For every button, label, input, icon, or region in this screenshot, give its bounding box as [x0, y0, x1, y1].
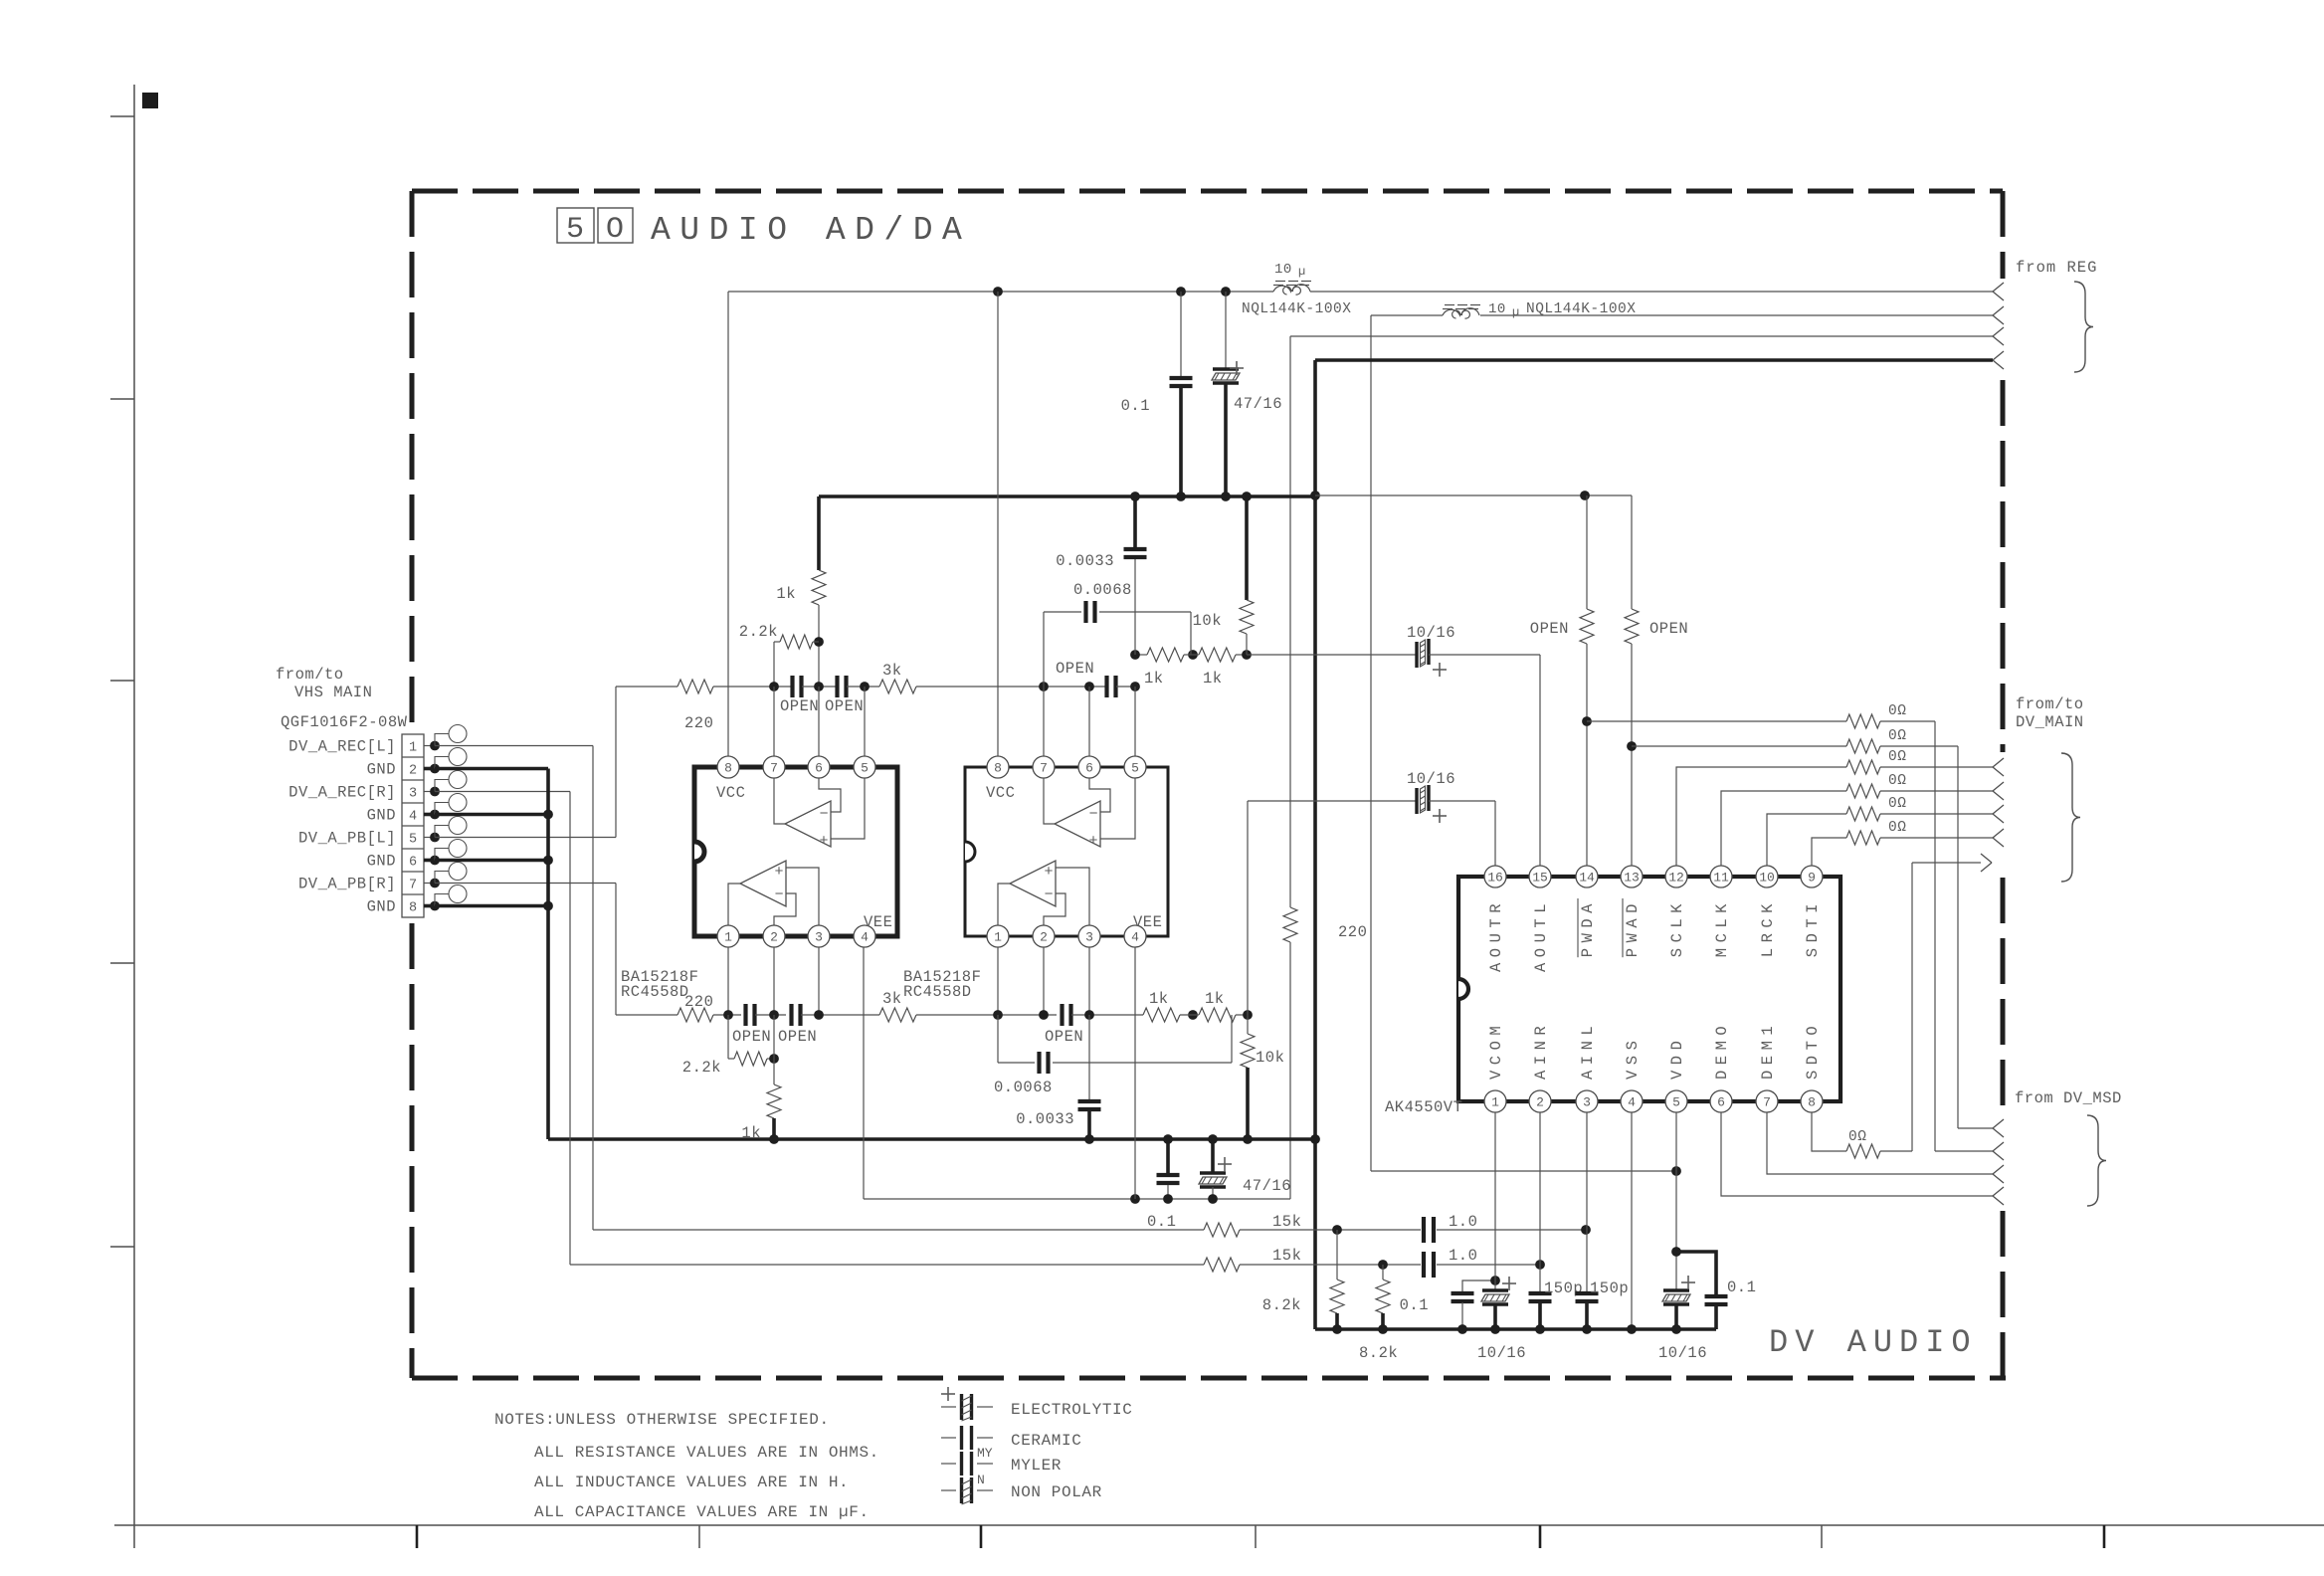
wire AGND from REG y362 (thick) [1315, 358, 1993, 362]
dashed board outline - right edge segment 2 [2001, 380, 2006, 752]
svg-text:DV_A_PB[R]: DV_A_PB[R] [298, 876, 396, 893]
resistor 1k row1020 first [1143, 1008, 1180, 1022]
capacitor OPEN row y1020 second [789, 1004, 793, 1026]
resistor 1k vertical (U1 bias) [812, 570, 826, 605]
svg-text:7: 7 [770, 761, 778, 776]
op-amp U1 pin 7 [763, 756, 785, 778]
wire pulldown net y498 [1315, 494, 1632, 496]
svg-text:10k: 10k [1256, 1049, 1284, 1067]
CN1 pin 7 stub and test point [424, 883, 435, 885]
svg-text:3k: 3k [882, 662, 902, 680]
op-amp U2 upper amp triangle [1055, 801, 1100, 847]
svg-text:DEM1: DEM1 [1759, 1021, 1777, 1080]
wire PWDA riser pin14 with OPEN resistor [1586, 495, 1588, 609]
dashed board outline - left edge lower [410, 923, 415, 1378]
capacitor OPEN row y690 first [790, 676, 794, 697]
wire CN1 pin3 DV_A_REC[R] [435, 791, 570, 793]
svg-text:15k: 15k [1272, 1213, 1301, 1231]
junction U2 pin7 node row y690 [1039, 682, 1049, 691]
svg-text:10/16: 10/16 [1407, 624, 1455, 642]
wire VDD branch y1177 [1371, 1170, 1676, 1172]
op-amp U2 pin 3 [1078, 925, 1100, 947]
dashed board outline - right edge segment 4 [2001, 1211, 2006, 1378]
svg-text:AINR: AINR [1532, 1021, 1550, 1080]
junction U2 pin3 node row y1020 [1084, 1010, 1094, 1020]
svg-text:5: 5 [1672, 1095, 1680, 1110]
connector CN1 body [402, 734, 424, 917]
bottom ruler tick x419 [416, 1525, 419, 1548]
wire VDD riser x1378 [1370, 315, 1372, 1171]
bottom ruler tick x703 [698, 1525, 700, 1548]
svg-text:DV_A_PB[L]: DV_A_PB[L] [298, 830, 396, 848]
svg-text:+: + [774, 864, 784, 881]
resistor 3k row y1020 [879, 1008, 916, 1022]
svg-text:10/16: 10/16 [1477, 1344, 1526, 1362]
svg-text:µ: µ [1512, 305, 1519, 319]
svg-text:0.1: 0.1 [1727, 1279, 1756, 1296]
svg-text:1: 1 [409, 741, 417, 756]
junction PWDA row y725 [1582, 716, 1592, 726]
IC U3 pin 14 PWDA [1576, 866, 1598, 887]
svg-text:16: 16 [1487, 871, 1503, 886]
capacitor 0.1 top - lead [1180, 292, 1182, 376]
resistor 1k row658 second [1199, 648, 1236, 662]
capacitor OPEN row y690 third [1104, 676, 1108, 697]
svg-text:VEE: VEE [864, 913, 892, 931]
IC U3 pin 13 PWAD [1621, 866, 1643, 887]
svg-text:5: 5 [861, 761, 869, 776]
IC U3 pin 11 MCLK [1710, 866, 1732, 887]
svg-text:0.0068: 0.0068 [1073, 581, 1132, 599]
dashed board outline - right edge segment 1 [2001, 191, 2006, 279]
svg-text:6: 6 [1717, 1095, 1725, 1110]
svg-text:MYLER: MYLER [1011, 1457, 1062, 1475]
inductor L1 10u NQL144K-100X [1273, 285, 1310, 295]
svg-text:0Ω: 0Ω [1888, 728, 1906, 744]
wire VEE riser x1297 lower [1289, 942, 1291, 1199]
svg-text:2: 2 [409, 764, 417, 779]
capacitor 150p AINL [1586, 1112, 1588, 1292]
op-amp U2 pin 2 [1033, 925, 1055, 947]
wire row658 to 10/16 coupling cap [1247, 654, 1418, 656]
svg-text:220: 220 [684, 714, 713, 732]
wire CN1 pin5 DV_A_PB[L] [435, 837, 616, 839]
svg-text:5: 5 [566, 213, 584, 247]
wire row y805 to coupling cap [1248, 800, 1418, 802]
IC U3 pin 3 AINL [1576, 1090, 1598, 1112]
wire row y690 to U2 region [916, 686, 1106, 688]
wire U2 pin5 riser [1134, 687, 1136, 756]
svg-text:DV_A_REC[R]: DV_A_REC[R] [289, 784, 396, 802]
capacitor OPEN row y1020 third [1060, 1004, 1064, 1026]
title block digit 5 box [557, 208, 594, 243]
svg-text:OPEN: OPEN [732, 1028, 771, 1046]
junction 0.1 mid on VEE rail [1163, 1194, 1173, 1204]
junction 10k lower on bus [1243, 1134, 1253, 1144]
svg-text:VCC: VCC [716, 784, 745, 802]
svg-text:7: 7 [1763, 1095, 1771, 1110]
op-amp U2 pin 7 [1033, 756, 1055, 778]
svg-text:1k: 1k [1149, 990, 1169, 1008]
wire riser x1945 row725 to DV_MSD arrow2 [1934, 721, 1936, 1151]
dashed board outline - top edge [412, 189, 2003, 194]
wire U1 pin3 riser [818, 947, 820, 1015]
resistor 8.2k first [1336, 1230, 1338, 1280]
svg-text:ELECTROLYTIC: ELECTROLYTIC [1011, 1401, 1132, 1419]
junction U1 pin5 node row y690 [860, 682, 870, 691]
resistor 220 row y1020 [678, 1008, 713, 1022]
CN1 pin 3 stub and test point [424, 791, 435, 793]
junction AGND riser with y498 line [1310, 491, 1320, 500]
svg-text:3: 3 [409, 787, 417, 802]
junction 8.2k row1236 [1332, 1225, 1342, 1235]
capacitor 0.0033 upper [1124, 547, 1147, 551]
svg-text:1.0: 1.0 [1449, 1247, 1477, 1265]
wire U1 pin2 riser [773, 947, 775, 1015]
svg-text:AOUTL: AOUTL [1532, 898, 1550, 972]
svg-text:10: 10 [1488, 301, 1506, 317]
brace REG connector group [2074, 282, 2093, 372]
svg-text:OPEN: OPEN [1530, 620, 1569, 638]
svg-text:3: 3 [1583, 1095, 1591, 1110]
wire VSS riser to ground bus [1631, 1112, 1633, 1329]
op-amp U1 pin 5 [854, 756, 875, 778]
connector arrow from DV_MSD line 4 [1993, 1187, 2004, 1196]
op-amp U1 notch [694, 842, 704, 862]
op-amp U2 pin 5 [1124, 756, 1146, 778]
svg-text:8.2k: 8.2k [1359, 1344, 1398, 1362]
svg-text:2: 2 [1536, 1095, 1544, 1110]
op-amp U1 pin 2 [763, 925, 785, 947]
svg-text:ALL INDUCTANCE VALUES ARE IN H: ALL INDUCTANCE VALUES ARE IN H. [534, 1474, 849, 1491]
junction between 1k resistors row658 [1188, 650, 1198, 660]
svg-text:1.0: 1.0 [1449, 1213, 1477, 1231]
title block digit 0 box [598, 208, 633, 243]
resistor 3k row y690 [879, 680, 916, 693]
svg-text:0.1: 0.1 [1147, 1213, 1176, 1231]
wire VCC riser to op-amp U1 pin8 [727, 292, 729, 756]
bottom ruler tick x1262 [1255, 1525, 1257, 1548]
junction PWAD row y750 [1627, 741, 1637, 751]
wire riser PB[R] x619 down [615, 884, 617, 1016]
junction 2.2k / 1k lower [769, 1054, 779, 1064]
svg-text:15k: 15k [1272, 1247, 1301, 1265]
svg-text:AUDIO AD/DA: AUDIO AD/DA [651, 212, 971, 249]
connector arrow from DV_MSD line 3 [1993, 1165, 2004, 1174]
junction U2 pin2 node row y1020 [1039, 1010, 1049, 1020]
resistor 1k row1020 second [1199, 1008, 1236, 1022]
svg-text:4: 4 [861, 930, 869, 945]
svg-text:DEMO: DEMO [1713, 1021, 1731, 1080]
wire CN1 pin7 DV_A_PB[R] [435, 883, 616, 885]
IC U3 pin 5 VDD [1665, 1090, 1687, 1112]
svg-text:0.0068: 0.0068 [994, 1079, 1053, 1096]
IC U3 notch [1458, 979, 1468, 999]
svg-text:10: 10 [1759, 871, 1775, 886]
svg-text:0Ω: 0Ω [1888, 703, 1906, 719]
svg-text:1k: 1k [1144, 670, 1164, 688]
node 0.1 cap on VCC net [1176, 287, 1186, 296]
wire U1 pin7 riser [773, 687, 775, 756]
svg-text:OPEN: OPEN [825, 697, 864, 715]
svg-text:0.1: 0.1 [1121, 397, 1150, 415]
svg-text:3k: 3k [882, 990, 902, 1008]
junction U1 pin1 node row y1020 [723, 1010, 733, 1020]
svg-text:O: O [606, 213, 624, 247]
dashed board outline - right edge segment 3 [2001, 878, 2006, 1112]
wire main row y1020 [616, 1014, 678, 1016]
wire VDD riser lower [1675, 1112, 1677, 1290]
svg-text:−: − [1088, 806, 1098, 823]
wire U1 pin1 riser [727, 947, 729, 1015]
wire SDTO pin8 to 0ohm and DV_MAIN out [1812, 1112, 1846, 1151]
inductor L2 10u NQL144K-100X [1443, 308, 1479, 318]
svg-text:from/to: from/to [276, 666, 344, 684]
wire riser x1968 row750 to DV_MSD arrow1 [1957, 746, 1959, 1128]
svg-text:12: 12 [1668, 871, 1684, 886]
svg-text:SDTO: SDTO [1804, 1021, 1822, 1080]
resistor 0ohm MCLK [1846, 784, 1880, 798]
CN1 pin 8 stub and test point [424, 904, 435, 908]
op-amp U1 pin 1 [717, 925, 739, 947]
svg-text:8: 8 [994, 761, 1002, 776]
wire LRCK pin10 to DV_MAIN [1767, 814, 1846, 866]
svg-text:MCLK: MCLK [1713, 898, 1731, 957]
svg-text:11: 11 [1713, 871, 1729, 886]
svg-text:µ: µ [1298, 265, 1305, 279]
margin tick y1253 [110, 1246, 134, 1248]
capacitor OPEN row y1020 first [743, 1004, 747, 1026]
node 47/16 cap on VCC net [1221, 287, 1231, 296]
wire MCLK pin11 to DV_MAIN [1721, 791, 1846, 866]
svg-text:DV_A_REC[L]: DV_A_REC[L] [289, 738, 396, 756]
junction 47/16 mid on VEE rail [1208, 1194, 1218, 1204]
junction 10k node row658 [1242, 650, 1252, 660]
wire DEM1 pin7 to DV_MSD arrow3 [1767, 1112, 1993, 1174]
svg-text:OPEN: OPEN [1649, 620, 1688, 638]
svg-text:10k: 10k [1193, 612, 1222, 630]
resistor 8.2k second [1382, 1265, 1384, 1280]
wire 0.0068 feedback loop upper [1043, 612, 1045, 687]
svg-text:NQL144K-100X: NQL144K-100X [1526, 301, 1636, 317]
svg-text:1: 1 [724, 930, 732, 945]
wire SDTI pin9 to DV_MAIN [1812, 838, 1846, 866]
bus VCC/2 y499 (thick) [819, 494, 1315, 498]
svg-text:N: N [977, 1473, 985, 1487]
svg-text:1: 1 [1491, 1095, 1499, 1110]
svg-text:150p: 150p [1590, 1280, 1629, 1297]
svg-text:SDTI: SDTI [1804, 898, 1822, 957]
svg-text:LRCK: LRCK [1759, 898, 1777, 957]
CN1 pin 6 stub and test point [424, 859, 435, 863]
op-amp U1 upper amp wires [774, 778, 785, 824]
svg-text:10/16: 10/16 [1658, 1344, 1707, 1362]
connector arrow DV_MAIN SCLK [1993, 758, 2004, 767]
op-amp U2 pin 6 [1078, 756, 1100, 778]
resistor 2.2k horizontal [774, 641, 780, 643]
junction U2 pin5 node row y690 [1130, 682, 1140, 691]
IC U3 pin 8 SDTO [1801, 1090, 1823, 1112]
connector arrow DV_MAIN MCLK [1993, 782, 2004, 791]
wire row y1020 to U2 [916, 1014, 1057, 1016]
junction row658 left [1130, 650, 1140, 660]
capacitor 0.0033 lower - lead [1088, 1015, 1090, 1101]
svg-text:CERAMIC: CERAMIC [1011, 1432, 1081, 1450]
capacitor 150p AINR [1539, 1112, 1541, 1292]
capacitor 0.0068 upper [1083, 601, 1087, 623]
junction U1 pin6 node row y690 [814, 682, 824, 691]
wire row y725 to 0ohm [1587, 720, 1846, 722]
connector arrow from REG line 2 [1993, 306, 2004, 315]
resistor 2.2k lower [728, 1058, 734, 1060]
capacitor 47/16 mid electrolytic [1211, 1139, 1215, 1173]
wire ADC input row y1236 [593, 1229, 1204, 1231]
wire U2 pin1 riser [997, 947, 999, 1015]
wire SCLK pin12 to DV_MAIN [1676, 767, 1846, 866]
svg-text:GND: GND [367, 853, 396, 871]
capacitor 0.1 mid [1157, 1173, 1180, 1177]
svg-text:0.1: 0.1 [1400, 1296, 1429, 1314]
capacitor 0.1 mid - lead [1166, 1139, 1170, 1174]
brace DV_MSD connector group [2087, 1115, 2106, 1206]
svg-text:7: 7 [409, 879, 417, 893]
svg-text:8: 8 [1808, 1095, 1816, 1110]
op-amp U2 BA15218F body [965, 767, 1168, 936]
wire riser REC[L] x596 [592, 746, 594, 1231]
junction AGND riser with analog ground bus [1310, 1134, 1320, 1144]
wire GND CN1 pin4 (thick) [435, 813, 548, 817]
IC U3 pin 10 LRCK [1756, 866, 1778, 887]
wire DEMO pin6 to DV_MSD arrow4 [1721, 1112, 1993, 1196]
op-amp U2 pin 4 [1124, 925, 1146, 947]
svg-text:0.0033: 0.0033 [1056, 552, 1114, 570]
svg-text:14: 14 [1579, 871, 1595, 886]
svg-text:2.2k: 2.2k [739, 623, 778, 641]
op-amp U1 pin 8 [717, 756, 739, 778]
svg-text:0Ω: 0Ω [1888, 796, 1906, 812]
junction AINL riser row1236 [1581, 1225, 1591, 1235]
wire VEE net y338 [1290, 335, 1993, 337]
wire VEE riser x1297 upper [1289, 336, 1291, 907]
wire VDD net y317 from inductor L2 [1371, 314, 1443, 316]
legend non polar symbol [941, 1489, 956, 1491]
op-amp U2 pin 1 [987, 925, 1009, 947]
svg-text:0Ω: 0Ω [1888, 749, 1906, 765]
svg-text:−: − [819, 806, 829, 823]
junction 0.0033 lower on bus [1084, 1134, 1094, 1144]
svg-text:PWDA: PWDA [1579, 898, 1597, 957]
junction VDD 0.1 branch [1671, 1247, 1681, 1257]
capacitor 1.0 row1271 [1422, 1252, 1426, 1278]
connector arrow from DV_MSD line 2 [1993, 1142, 2004, 1151]
svg-text:6: 6 [815, 761, 823, 776]
CN1 pin 2 stub and test point [424, 767, 435, 771]
capacitor 47/16 (top electrolytic) [1213, 367, 1239, 370]
resistor 10k upper (thick leads) [1245, 496, 1249, 600]
svg-text:3: 3 [815, 930, 823, 945]
junction 10k feed on bus y499 [1242, 492, 1252, 501]
connector arrow from REG line 4 [1993, 351, 2004, 360]
svg-text:13: 13 [1624, 871, 1640, 886]
op-amp U2 pin 8 [987, 756, 1009, 778]
wire GND CN1 pin6 (thick) [435, 859, 548, 863]
svg-text:7: 7 [1040, 761, 1048, 776]
svg-text:VCOM: VCOM [1487, 1021, 1505, 1080]
svg-text:NON POLAR: NON POLAR [1011, 1483, 1102, 1501]
op-amp U2 upper amp wires [1044, 778, 1055, 824]
svg-text:QGF1016F2-08W: QGF1016F2-08W [281, 713, 408, 731]
wire GND bus from CN1 pin2 (thick) [435, 767, 548, 771]
resistor 1k lower vertical [773, 1059, 775, 1084]
wire main row y690 (PB-L path) [616, 686, 678, 688]
op-amp U1 upper amp triangle [785, 801, 831, 847]
svg-text:RC4558D: RC4558D [621, 983, 689, 1001]
wire ADC input row y1271 [570, 1264, 1204, 1266]
op-amp U1 BA15218F body [694, 767, 897, 936]
bottom ruler tick x986 [980, 1525, 983, 1548]
wire U2 pin8 riser to VCC net [997, 292, 999, 756]
svg-text:from DV_MSD: from DV_MSD [2015, 1089, 2122, 1107]
junction pulldown net at PWDA riser [1580, 491, 1590, 500]
junction U2 pin1 node row y1020 [993, 1010, 1003, 1020]
capacitor 0.1 VCOM group [1462, 1280, 1495, 1292]
wire U1 pin5 riser [864, 687, 866, 756]
capacitor OPEN row y690 second [835, 676, 839, 697]
resistor 0ohm SCLK [1846, 760, 1880, 774]
IC U3 pin 15 AOUTL [1529, 866, 1551, 887]
wire 0.0068 loop lower [997, 1015, 999, 1063]
resistor 1k row658 first [1147, 648, 1184, 662]
connector arrow DV_MAIN SDTO out [1981, 854, 1992, 863]
resistor 0ohm SDTI [1846, 831, 1880, 845]
svg-text:0Ω: 0Ω [1888, 773, 1906, 789]
svg-text:OPEN: OPEN [1045, 1028, 1083, 1046]
svg-text:2.2k: 2.2k [682, 1059, 721, 1077]
legend electrolytic symbol [941, 1393, 955, 1395]
svg-text:VHS MAIN: VHS MAIN [294, 684, 372, 701]
margin tick y401 [110, 398, 134, 400]
resistor 15k row1271 [1204, 1258, 1240, 1272]
bottom ruler tick x2115 [2103, 1525, 2106, 1548]
svg-text:+: + [1088, 833, 1098, 850]
svg-text:47/16: 47/16 [1243, 1177, 1291, 1195]
bottom ruler tick x1548 [1539, 1525, 1542, 1548]
wire 2.2k left leg down to row [773, 642, 775, 687]
wire row y750 to 0ohm [1632, 745, 1846, 747]
registration square [142, 93, 158, 108]
junction 10k node row1020 [1243, 1010, 1253, 1020]
svg-text:0Ω: 0Ω [1848, 1129, 1866, 1145]
wire 2.2k lower leg from U1 pin1 node [727, 1015, 729, 1059]
svg-text:VSS: VSS [1624, 1036, 1642, 1080]
svg-text:6: 6 [1085, 761, 1093, 776]
bottom ruler line [114, 1524, 2324, 1526]
capacitor 1.0 row1236 [1422, 1217, 1426, 1243]
svg-text:3: 3 [1085, 930, 1093, 945]
IC U3 pin 6 DEMO [1710, 1090, 1732, 1112]
brace DV_MAIN connector group [2061, 753, 2080, 882]
wire GND CN1 pin8 (thick) [435, 904, 548, 908]
resistor 0ohm SDTO [1846, 1144, 1880, 1158]
svg-text:47/16: 47/16 [1234, 395, 1282, 413]
capacitor 0.0033 upper - leads [1134, 559, 1136, 655]
svg-text:4: 4 [1131, 930, 1139, 945]
wire U2 pin6 riser [1088, 687, 1090, 756]
svg-text:VDD: VDD [1668, 1036, 1686, 1080]
svg-text:4: 4 [409, 810, 417, 825]
CN1 pin 1 stub and test point [424, 745, 435, 747]
svg-text:5: 5 [1131, 761, 1139, 776]
